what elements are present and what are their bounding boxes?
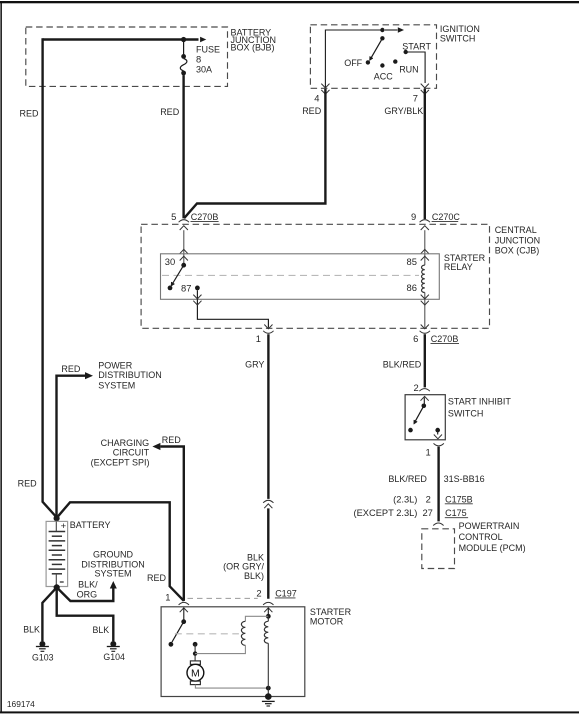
svg-text:RED: RED xyxy=(61,364,81,374)
svg-text:RUN: RUN xyxy=(399,64,419,74)
svg-text:4: 4 xyxy=(314,92,319,103)
svg-text:MODULE (PCM): MODULE (PCM) xyxy=(459,543,526,553)
svg-text:8: 8 xyxy=(196,53,201,64)
svg-text:SWITCH: SWITCH xyxy=(448,409,484,419)
svg-text:C175B: C175B xyxy=(445,494,473,504)
svg-text:SYSTEM: SYSTEM xyxy=(94,568,131,578)
svg-text:2: 2 xyxy=(256,587,261,598)
svg-text:RED: RED xyxy=(19,109,39,119)
svg-text:5: 5 xyxy=(171,211,176,222)
svg-text:C270B: C270B xyxy=(431,334,459,344)
svg-text:(EXCEPT 2.3L): (EXCEPT 2.3L) xyxy=(353,508,417,518)
svg-text:OFF: OFF xyxy=(344,58,362,68)
svg-text:169174: 169174 xyxy=(7,699,35,709)
svg-text:7: 7 xyxy=(413,92,418,103)
svg-text:BATTERY: BATTERY xyxy=(70,520,111,530)
svg-text:87: 87 xyxy=(181,283,191,294)
svg-text:RELAY: RELAY xyxy=(444,262,473,272)
svg-text:27: 27 xyxy=(422,507,432,518)
svg-text:30: 30 xyxy=(165,256,175,267)
svg-text:C270C: C270C xyxy=(432,212,461,222)
svg-text:C270B: C270B xyxy=(191,212,219,222)
svg-text:C175: C175 xyxy=(445,508,467,518)
svg-text:9: 9 xyxy=(411,211,416,222)
svg-text:2: 2 xyxy=(426,493,431,504)
svg-text:BLK: BLK xyxy=(93,625,110,635)
svg-text:START: START xyxy=(402,41,431,51)
svg-text:IGNITION: IGNITION xyxy=(440,24,480,34)
svg-text:GRY: GRY xyxy=(245,359,264,369)
svg-text:DISTRIBUTION: DISTRIBUTION xyxy=(98,370,162,380)
svg-text:6: 6 xyxy=(413,333,418,344)
svg-text:(2.3L): (2.3L) xyxy=(393,494,417,504)
svg-text:RED: RED xyxy=(147,573,167,583)
svg-text:ORG: ORG xyxy=(77,590,98,600)
svg-text:ACC: ACC xyxy=(374,71,394,81)
svg-text:MOTOR: MOTOR xyxy=(310,617,344,627)
svg-text:86: 86 xyxy=(407,282,417,293)
svg-text:RED: RED xyxy=(302,106,322,116)
svg-text:+: + xyxy=(61,521,67,532)
svg-text:2: 2 xyxy=(413,382,418,393)
svg-text:SYSTEM: SYSTEM xyxy=(98,380,135,390)
svg-text:BLK): BLK) xyxy=(244,571,264,581)
svg-text:RED: RED xyxy=(18,479,38,489)
svg-text:(EXCEPT SPI): (EXCEPT SPI) xyxy=(91,457,150,467)
svg-text:JUNCTION: JUNCTION xyxy=(495,235,541,245)
svg-text:BOX (CJB): BOX (CJB) xyxy=(495,246,540,256)
svg-text:GRY/BLK: GRY/BLK xyxy=(384,106,423,116)
svg-text:G103: G103 xyxy=(32,653,54,663)
svg-text:C197: C197 xyxy=(275,588,297,598)
svg-text:BOX (BJB): BOX (BJB) xyxy=(231,43,275,53)
svg-text:RED: RED xyxy=(162,435,182,445)
svg-text:POWER: POWER xyxy=(98,360,133,370)
svg-text:1: 1 xyxy=(425,446,430,457)
svg-text:POWERTRAIN: POWERTRAIN xyxy=(459,521,520,531)
svg-text:RED: RED xyxy=(160,107,180,117)
svg-text:G104: G104 xyxy=(103,652,125,662)
svg-text:85: 85 xyxy=(407,256,417,267)
svg-text:CONTROL: CONTROL xyxy=(459,532,503,542)
svg-text:1: 1 xyxy=(165,592,170,603)
svg-text:GROUND: GROUND xyxy=(93,549,133,559)
svg-text:CENTRAL: CENTRAL xyxy=(495,225,537,235)
svg-text:BLK: BLK xyxy=(23,624,40,634)
svg-text:M: M xyxy=(191,668,200,680)
svg-text:30A: 30A xyxy=(196,65,212,75)
svg-text:BLK/RED: BLK/RED xyxy=(388,474,427,484)
svg-text:1: 1 xyxy=(256,333,261,344)
svg-text:SWITCH: SWITCH xyxy=(440,34,476,44)
svg-text:BLK/: BLK/ xyxy=(78,579,98,589)
svg-text:STARTER: STARTER xyxy=(310,607,352,617)
svg-text:31S-BB16: 31S-BB16 xyxy=(444,474,485,484)
svg-text:START INHIBIT: START INHIBIT xyxy=(448,397,512,407)
svg-text:BLK/RED: BLK/RED xyxy=(383,359,422,369)
svg-text:CIRCUIT: CIRCUIT xyxy=(113,447,150,457)
